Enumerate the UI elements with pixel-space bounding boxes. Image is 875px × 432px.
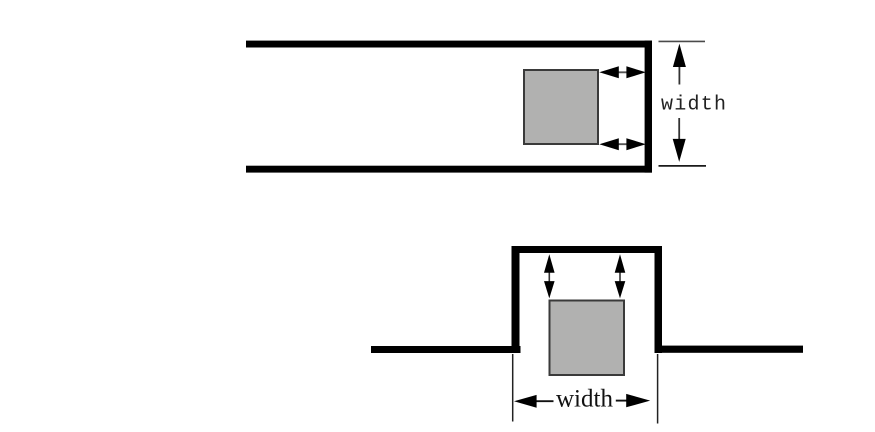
svg-text:width: width [556,386,613,413]
svg-text:width: width [661,94,726,117]
